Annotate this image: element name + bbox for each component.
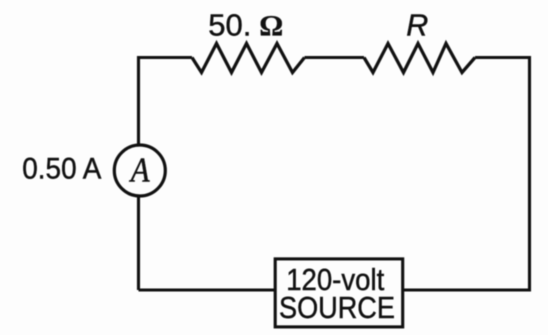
source box (120-volt) <box>275 259 403 327</box>
svg-text:0.50 A: 0.50 A <box>22 152 102 185</box>
svg-text:SOURCE: SOURCE <box>279 292 395 326</box>
ammeter A1 circle <box>114 145 165 196</box>
wire: top-right, right side, bottom-right segment <box>404 58 530 291</box>
wire: between resistors <box>305 56 365 59</box>
svg-text:R: R <box>406 8 428 42</box>
svg-text:A: A <box>129 152 150 190</box>
resistor R1 (50 ohm) zigzag <box>192 44 305 73</box>
svg-text:Ω: Ω <box>259 9 283 42</box>
resistor R2 (R) zigzag <box>364 44 475 73</box>
svg-text:50.: 50. <box>208 8 251 43</box>
wire: left side and top-left segment <box>139 58 193 291</box>
wire: bottom-left segment <box>139 288 276 291</box>
